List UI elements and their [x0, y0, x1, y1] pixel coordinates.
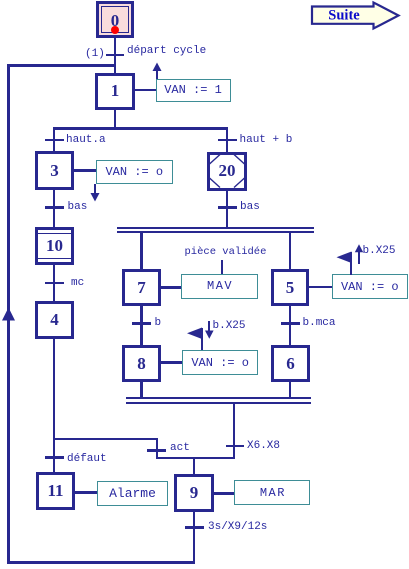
- label haut + b: [240, 135, 293, 146]
- wire: parallel left branch upper: [140, 233, 143, 269]
- step 5: [271, 269, 309, 306]
- label b.X25 (top right): [363, 246, 396, 257]
- wire: parallel right branch upper: [289, 233, 292, 269]
- action box Alarme: [97, 481, 168, 506]
- wire: pièce validée to MAV box: [221, 260, 223, 275]
- action box VAN := o (step3): [96, 160, 174, 184]
- wire: top feedback horizontal: [7, 64, 116, 67]
- label départ cycle: [127, 46, 206, 57]
- step 0 (initial step, active): [96, 1, 134, 38]
- transition act : tick: [147, 449, 166, 452]
- transition b.mca : tick: [281, 322, 300, 325]
- label b.mca: [303, 318, 336, 329]
- transition mc : tick: [45, 282, 64, 285]
- step 4: [35, 301, 74, 339]
- wire: OR-join horizontal into step9: [156, 457, 236, 460]
- wire: step20 to AND bar: [226, 191, 229, 228]
- wire: left branch to step3: [53, 129, 56, 151]
- OR-divergence bar: [53, 127, 229, 130]
- label défaut: [67, 454, 107, 465]
- transition haut.a : tick: [45, 139, 64, 142]
- action box VAN := o (step8): [182, 350, 258, 375]
- wire: step5 to action: [309, 286, 332, 289]
- wire: act branch horizontal from left branch: [53, 438, 159, 441]
- flag staff (step8 action): [201, 328, 203, 351]
- label bas right: [240, 202, 260, 213]
- wire: step3 to action: [74, 169, 96, 172]
- action box MAR: [234, 480, 310, 505]
- wire: act branch vertical: [156, 439, 159, 458]
- action box VAN := 1: [156, 79, 231, 103]
- wire: step0 to transition (1): [114, 38, 117, 73]
- up arrow staff (step5 action): [358, 250, 360, 264]
- transition défaut : tick: [45, 456, 64, 459]
- wire: bottom feedback horizontal: [7, 561, 195, 564]
- wire: step11 to Alarme: [75, 491, 97, 494]
- wire: step1 to action VAN:=1: [135, 89, 156, 92]
- wire: left feedback vertical: [7, 64, 10, 563]
- wire: step9 to MAR: [214, 492, 234, 495]
- flow arrowhead on left feedback line: [2, 308, 15, 321]
- label b: [155, 318, 162, 329]
- flag staff (step5 action): [350, 252, 352, 275]
- macro step 20 corner diagonals: [210, 155, 245, 188]
- arrowhead down (step8 action): [205, 331, 214, 339]
- step 20 (macro): [207, 152, 247, 191]
- wire: step8 to action: [161, 361, 182, 364]
- Suite navigation arrow: [312, 3, 399, 29]
- svg-text:Suite: Suite: [328, 8, 360, 24]
- active step token (red dot): [111, 26, 119, 34]
- wire: step5 to step6: [289, 306, 292, 345]
- action box VAN := o (step5): [332, 274, 408, 299]
- label bas left: [68, 202, 88, 213]
- stored-action down arrow staff (step3 action): [94, 184, 96, 194]
- transition X6.X8 : tick: [226, 445, 245, 448]
- transition haut+b : tick: [218, 139, 237, 142]
- step 1: [95, 73, 135, 111]
- step 6: [271, 345, 310, 382]
- transition (1) départ cycle : tick: [106, 54, 124, 57]
- wire: step6 to AND join: [289, 382, 292, 397]
- wire: AND join down to OR join: [233, 404, 236, 459]
- flag triangle (step8 action): [187, 328, 202, 340]
- AND-divergence double bar top: [117, 227, 314, 229]
- stored-action up arrow staff (VAN:=1): [156, 70, 158, 79]
- label pièce validée: [185, 247, 267, 258]
- wire: OR-join to step9 top: [193, 459, 196, 474]
- wire: right branch to step20: [226, 129, 229, 152]
- action box MAV: [181, 274, 258, 299]
- label b.X25 (middle): [213, 321, 246, 332]
- wire: step9 down to bottom loop: [193, 512, 196, 564]
- arrowhead up (VAN:=1): [153, 63, 162, 72]
- down arrow staff (step8 action): [208, 321, 210, 332]
- label (1): [85, 49, 105, 60]
- step 8: [122, 345, 161, 382]
- step 3: [35, 151, 74, 190]
- label haut.a: [66, 135, 106, 146]
- label mc: [71, 278, 84, 289]
- flag triangle (step5 action): [337, 252, 352, 264]
- label X6.X8: [247, 441, 280, 452]
- transition bas (right) : tick: [218, 206, 237, 209]
- AND-convergence double bar bottom: [126, 397, 312, 399]
- step 10 (macro-step): [35, 227, 74, 265]
- macro-step inner line top: [38, 233, 71, 235]
- step 9: [174, 474, 214, 512]
- step 7: [122, 269, 161, 306]
- macro-step inner line bottom: [38, 258, 71, 260]
- arrowhead down (step3 action): [91, 193, 100, 202]
- wire: step3 to step10: [53, 190, 56, 227]
- wire: step7 to MAV: [161, 286, 181, 289]
- label act: [170, 443, 190, 454]
- wire: step7 to step8: [140, 306, 143, 345]
- wire: step1 bottom to OR-divergence: [114, 110, 117, 128]
- wire: step10 to step4: [53, 265, 56, 301]
- transition 3s/X9/12s : tick: [185, 526, 205, 529]
- arrowhead up (step5 action): [355, 244, 363, 252]
- transition b : tick: [132, 322, 151, 325]
- wire: step8 to AND join: [140, 382, 143, 397]
- label 3s/X9/12s: [208, 522, 267, 533]
- transition bas (left) : tick: [45, 206, 64, 209]
- step 11: [36, 472, 75, 510]
- wire: step4 down to step11: [53, 338, 56, 472]
